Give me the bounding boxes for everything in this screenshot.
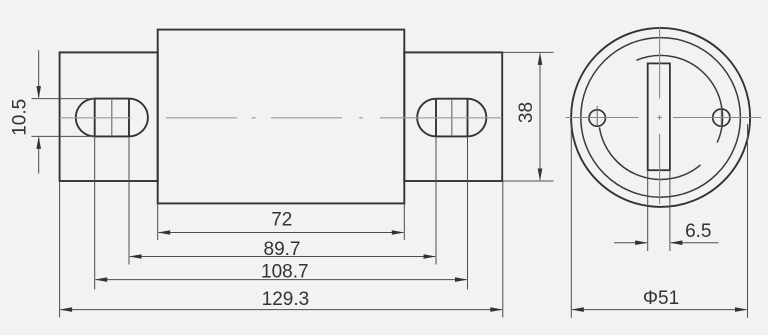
129.3 dimension line bbox=[61, 309, 502, 311]
89.7 dimension line bbox=[130, 256, 435, 258]
72 extension lines bbox=[157, 203, 159, 240]
phi51 extension lines bbox=[570, 124, 572, 318]
38 arrows bbox=[538, 52, 543, 65]
right hole bbox=[713, 109, 730, 126]
outer circle bbox=[571, 28, 750, 207]
right slot obround bbox=[417, 99, 486, 137]
129.3 arrows bbox=[60, 307, 73, 312]
right mounting tab bbox=[404, 52, 502, 181]
dimension texts bbox=[9, 99, 537, 310]
6.5 and phi51 thin lines bbox=[571, 124, 747, 318]
svg-text:6.5: 6.5 bbox=[685, 221, 711, 242]
129.3 extension lines bbox=[59, 181, 61, 318]
svg-text:89.7: 89.7 bbox=[264, 239, 301, 260]
89.7 arrows bbox=[129, 254, 142, 259]
left slot tangent lines bbox=[95, 99, 129, 137]
front view horizontal centerline bbox=[566, 117, 761, 119]
6.5 extension lines bbox=[647, 170, 649, 251]
window arc lower bbox=[599, 127, 700, 179]
thin extension and dimension lines bbox=[32, 50, 554, 317]
38 dimension line bbox=[539, 53, 541, 180]
window arc upper bbox=[636, 55, 722, 142]
svg-text:Φ51: Φ51 bbox=[643, 288, 679, 309]
left mounting tab bbox=[60, 52, 158, 181]
svg-text:10.5: 10.5 bbox=[9, 99, 30, 136]
left slot obround bbox=[76, 99, 148, 137]
body rectangle bbox=[158, 30, 405, 204]
svg-text:38: 38 bbox=[516, 102, 537, 123]
10.5 dimension line bbox=[38, 50, 40, 97]
10.5 arrows (outside, pointing in) bbox=[36, 86, 41, 99]
108.7 extension lines bbox=[94, 136, 96, 289]
72 dimension line bbox=[159, 232, 404, 234]
left hole bbox=[589, 110, 605, 126]
svg-text:72: 72 bbox=[271, 210, 292, 231]
6.5 and phi51 arrows bbox=[571, 240, 747, 312]
inner circle bbox=[581, 38, 741, 198]
89.7 extension lines bbox=[128, 136, 130, 264]
side view body bbox=[60, 30, 503, 204]
svg-text:129.3: 129.3 bbox=[262, 289, 310, 310]
108.7 dimension line bbox=[96, 279, 467, 281]
right slot tangent lines bbox=[436, 99, 468, 137]
72 arrows bbox=[158, 230, 171, 235]
slot center ticks bbox=[112, 99, 452, 137]
central slot bbox=[648, 63, 670, 170]
38 extension lines bbox=[502, 51, 553, 53]
svg-text:108.7: 108.7 bbox=[261, 262, 309, 283]
arrowheads bbox=[36, 52, 542, 312]
6.5 dimension line bbox=[614, 242, 647, 244]
side view centerline bbox=[60, 117, 502, 119]
108.7 arrows bbox=[95, 277, 108, 282]
phi51 dimension line bbox=[572, 309, 746, 311]
6.5 and phi51 texts bbox=[643, 221, 712, 309]
10.5 extension lines bbox=[32, 98, 96, 100]
hole center ticks bbox=[597, 106, 721, 127]
front view vertical centerline bbox=[659, 27, 661, 205]
